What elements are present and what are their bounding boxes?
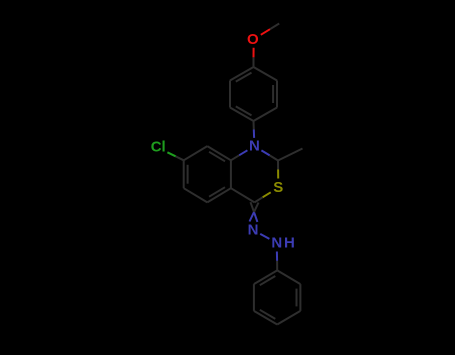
bond S-C4 (S-C4)	[255, 192, 271, 202]
bond C5-C4a (benzo edge)	[207, 188, 231, 202]
bond N1-C8a (N1-C8a)	[231, 150, 248, 160]
bond C4a-C8a (benzo edge)	[230, 160, 232, 188]
bond N3-NH (N-N)	[260, 234, 269, 239]
bond C7-C6 (benzo edge)	[183, 160, 185, 188]
bond TL2-T2 (bottom phenyl edge)	[254, 270, 277, 284]
bond C7-Cl (C7-Cl)	[167, 152, 183, 160]
bond C6-C5 (benzo edge)	[184, 188, 208, 202]
bond BR-B (top phenyl edge)	[254, 108, 278, 122]
bond TR2-BR2 (bottom phenyl edge)	[299, 284, 301, 311]
bond C2-CH3b (2-methyl)	[278, 149, 303, 161]
bond B-BL (top phenyl edge)	[230, 108, 254, 122]
svg-text:H: H	[284, 235, 295, 252]
bond O-T (O to ring)	[253, 48, 255, 67]
bond O-CH3a (O-CH3 of methoxy)	[261, 24, 279, 35]
bond BL-TL (top phenyl edge)	[229, 81, 231, 108]
bond C8a-C8 (benzo edge)	[207, 146, 231, 160]
svg-text:Cl: Cl	[151, 138, 166, 155]
aromatic inner line C5-C4a (benzo)	[209, 187, 225, 197]
bond TL-T (top phenyl edge)	[230, 67, 254, 81]
svg-text:O: O	[247, 31, 259, 48]
bond C2-S (C2-S)	[277, 161, 279, 179]
bond B-N1 (phenyl to ring N)	[253, 121, 256, 138]
bond BR2-B2 (bottom phenyl edge)	[277, 311, 300, 325]
svg-text:S: S	[273, 179, 283, 196]
bond NH-T2 (NH-phenyl)	[276, 252, 278, 271]
bond BL2-TL2 (bottom phenyl edge)	[253, 284, 255, 311]
aromatic inner line C8a-C8 (benzo)	[209, 152, 225, 162]
bond B2-BL2 (bottom phenyl edge)	[254, 311, 277, 325]
svg-text:N: N	[271, 235, 282, 252]
bond T-TR (top phenyl edge)	[254, 67, 278, 81]
bond TR-BR (top phenyl edge)	[276, 81, 278, 108]
svg-text:N: N	[248, 221, 259, 238]
bond T2-TR2 (bottom phenyl edge)	[277, 270, 300, 284]
aromatic inner line C7-C6 (benzo)	[187, 165, 189, 184]
bond C8-C7 (benzo edge)	[184, 146, 208, 160]
crossed double bond C4=N3	[250, 202, 259, 222]
bond N1-C2 (N1-C2)	[261, 150, 278, 160]
aromatic inner line TR-BR (top phenyl)	[272, 85, 274, 103]
aromatic inner line B2-BL2 (bottom phenyl)	[260, 310, 276, 319]
aromatic inner line TL2-T2 (bottom phenyl)	[260, 276, 276, 285]
aromatic inner line TR2-BR2 (bottom phenyl)	[296, 289, 298, 307]
aromatic inner line TL-T (top phenyl)	[236, 73, 252, 82]
aromatic inner line B-BL (top phenyl)	[236, 106, 252, 115]
bond C4-C4a (C4-C4a)	[231, 188, 255, 202]
svg-text:N: N	[249, 138, 260, 155]
